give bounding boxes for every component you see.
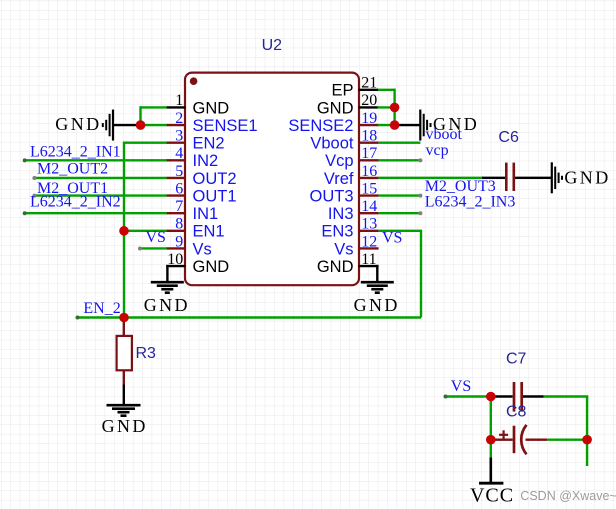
svg-text:14: 14 <box>361 198 377 215</box>
svg-text:OUT1: OUT1 <box>193 187 237 205</box>
capacitor C7 <box>491 382 544 412</box>
ground below R3 <box>102 405 148 436</box>
wire net VS (pin9) <box>138 246 167 250</box>
junction EN1 node <box>119 226 129 236</box>
U2 pin 19 (SENSE2) <box>288 110 378 135</box>
junction C7 left node <box>486 392 496 402</box>
svg-text:GND: GND <box>55 114 101 134</box>
C6 reference designator <box>498 129 519 146</box>
svg-text:C6: C6 <box>498 129 519 146</box>
U2 pin 12 (Vs) <box>334 233 378 258</box>
svg-text:U2: U2 <box>262 37 283 54</box>
junction C8 left node <box>486 435 496 445</box>
svg-text:OUT3: OUT3 <box>309 187 353 205</box>
svg-text:11: 11 <box>361 251 376 268</box>
net label vboot <box>426 126 463 143</box>
wire net L6234_2_IN1 (pin4) <box>23 158 167 162</box>
U2 pin 1 (GND) <box>166 92 229 117</box>
svg-text:R3: R3 <box>136 345 157 362</box>
U2 pin 8 (EN1) <box>166 216 224 241</box>
svg-text:GND: GND <box>564 168 610 188</box>
svg-text:CSDN @Xwave~: CSDN @Xwave~ <box>520 489 616 503</box>
wire net EN_2 <box>76 316 422 320</box>
svg-text:GND: GND <box>144 295 190 315</box>
svg-text:18: 18 <box>361 127 377 144</box>
svg-text:C8: C8 <box>506 403 527 420</box>
U2 pin 6 (OUT1) <box>166 180 236 205</box>
svg-text:VCC: VCC <box>470 485 514 507</box>
U2 pin 20 (GND) <box>317 92 379 117</box>
junction pin19 node <box>390 120 400 130</box>
R3 reference designator <box>136 345 157 362</box>
resistor R3 <box>117 318 132 385</box>
svg-text:1: 1 <box>175 92 183 109</box>
svg-text:10: 10 <box>167 251 183 268</box>
wire net L6234_2_IN3 (pin14) <box>379 211 423 215</box>
U2 pin 21 (EP) <box>331 75 378 100</box>
svg-text:19: 19 <box>361 110 377 127</box>
U2 pin 18 (Vboot) <box>310 127 378 152</box>
svg-text:SENSE1: SENSE1 <box>193 117 258 135</box>
svg-text:M2_OUT2: M2_OUT2 <box>37 160 108 177</box>
svg-text:L6234_2_IN3: L6234_2_IN3 <box>425 194 516 211</box>
svg-text:13: 13 <box>361 216 377 233</box>
wire net M2_OUT2 (pin5) <box>32 176 166 180</box>
wire R3 to ground <box>123 385 125 406</box>
svg-text:IN1: IN1 <box>193 205 219 223</box>
svg-text:8: 8 <box>175 216 183 233</box>
svg-text:EN1: EN1 <box>193 223 225 241</box>
net label L6234_2_IN3 <box>425 194 516 211</box>
wire C7 to right vertical <box>544 395 589 397</box>
svg-text:16: 16 <box>361 163 377 180</box>
wire pin8 EN1 to vertical <box>124 230 167 232</box>
U2 pin 3 (EN2) <box>166 127 224 152</box>
power ground GND (right of U2) <box>395 110 480 141</box>
junction left GND node <box>136 120 146 130</box>
svg-text:GND: GND <box>354 295 400 315</box>
U2 pin 9 (Vs) <box>166 233 211 258</box>
ground below pin11 <box>354 282 400 315</box>
svg-text:vboot: vboot <box>426 126 463 143</box>
wire net L6234_2_IN2 (pin7) <box>23 211 167 215</box>
svg-text:7: 7 <box>175 198 183 215</box>
net label M2_OUT2 <box>37 160 108 177</box>
net label vcp <box>426 142 449 159</box>
net label VS (C7) <box>451 378 471 395</box>
svg-text:OUT2: OUT2 <box>193 170 237 188</box>
svg-text:VS: VS <box>146 229 166 246</box>
wire pin1 to GND junction <box>141 106 167 125</box>
wire pin3 EN2 to vertical <box>124 141 167 143</box>
svg-text:12: 12 <box>361 233 377 250</box>
svg-text:5: 5 <box>175 163 183 180</box>
wire pin20 to vertical <box>378 106 395 108</box>
power ground GND (right of C6) <box>552 162 611 193</box>
U2 pin 5 (OUT2) <box>166 163 236 188</box>
U2 pin 2 (SENSE1) <box>166 110 257 135</box>
svg-text:GND: GND <box>317 99 354 117</box>
power ground GND (left of U2) <box>55 110 141 141</box>
net label L6234_2_IN1 <box>30 144 121 161</box>
ground below pin10 <box>144 282 190 315</box>
svg-text:EP: EP <box>331 82 353 100</box>
U2 pin 17 (Vcp) <box>325 145 379 170</box>
svg-text:21: 21 <box>361 75 377 92</box>
svg-text:EN_2: EN_2 <box>83 300 120 317</box>
svg-text:IN3: IN3 <box>328 205 354 223</box>
svg-text:Vcp: Vcp <box>325 152 353 170</box>
U2 pin 11 (GND) <box>317 251 379 276</box>
U2 pin 7 (IN1) <box>166 198 218 223</box>
svg-text:Vref: Vref <box>324 170 354 188</box>
net label M2_OUT1 <box>37 180 108 197</box>
wire net VS (to C7) <box>444 395 491 399</box>
wire pin16 Vref to C6 <box>379 177 483 179</box>
wire net M2_OUT3 (pin15) <box>379 194 423 198</box>
svg-text:SENSE2: SENSE2 <box>288 117 353 135</box>
power VCC <box>470 457 514 506</box>
svg-text:17: 17 <box>361 145 377 162</box>
wire pin19 to vertical <box>378 124 395 126</box>
svg-text:EN3: EN3 <box>321 223 353 241</box>
junction pin20 node <box>390 103 400 113</box>
svg-text:9: 9 <box>175 233 183 250</box>
wire net M2_OUT1 (pin6) <box>32 194 166 198</box>
svg-text:15: 15 <box>361 180 377 197</box>
U2 reference designator <box>262 37 283 54</box>
svg-text:vcp: vcp <box>426 142 449 159</box>
U2 pin 15 (OUT3) <box>309 180 378 205</box>
svg-text:C7: C7 <box>506 350 527 367</box>
capacitor C8 (polarized) <box>492 425 547 454</box>
net label VS (pin9) <box>146 229 166 246</box>
junction EN_2 node <box>119 313 129 323</box>
IC U2 body <box>185 73 359 286</box>
svg-text:GND: GND <box>102 416 148 436</box>
net label VS (pin12) <box>382 229 402 246</box>
svg-text:GND: GND <box>193 258 230 276</box>
svg-text:4: 4 <box>175 145 183 162</box>
svg-text:M2_OUT3: M2_OUT3 <box>425 178 496 195</box>
svg-text:VS: VS <box>382 229 402 246</box>
svg-text:L6234_2_IN1: L6234_2_IN1 <box>30 144 121 161</box>
svg-text:Vboot: Vboot <box>310 135 354 153</box>
svg-text:20: 20 <box>361 92 377 109</box>
junction right C8 node <box>582 435 592 445</box>
C7 reference designator <box>506 350 527 367</box>
svg-text:VS: VS <box>451 378 471 395</box>
svg-text:EN2: EN2 <box>193 135 225 153</box>
wire pin13 EN3 to corner <box>379 230 421 318</box>
wire pin2 to GND junction <box>141 124 167 126</box>
U2 pin 16 (Vref) <box>324 163 379 188</box>
wire net vboot (pin18) <box>379 141 421 143</box>
U2 pin 13 (EN3) <box>321 216 378 241</box>
U2 pin 10 (GND) <box>166 251 229 276</box>
svg-text:Vs: Vs <box>334 240 353 258</box>
U2 pin 4 (IN2) <box>166 145 218 170</box>
svg-text:2: 2 <box>175 110 183 127</box>
svg-text:L6234_2_IN2: L6234_2_IN2 <box>30 194 121 211</box>
C8 reference designator <box>506 403 527 420</box>
net label EN_2 <box>83 300 120 317</box>
svg-text:6: 6 <box>175 180 183 197</box>
wire left vertical VS <box>490 395 492 457</box>
wire net vcp (pin17) <box>379 158 423 162</box>
wire vertical EN net <box>123 141 125 317</box>
svg-text:GND: GND <box>193 99 230 117</box>
capacitor C6 <box>482 163 552 191</box>
net label L6234_2_IN2 <box>30 194 121 211</box>
net label M2_OUT3 <box>425 178 496 195</box>
wire pin11 to ground <box>376 265 378 282</box>
svg-text:Vs: Vs <box>193 240 212 258</box>
wire pin21 EP to vertical <box>378 89 395 125</box>
wire pin10 to ground <box>166 265 168 282</box>
svg-text:3: 3 <box>175 127 183 144</box>
svg-text:IN2: IN2 <box>193 152 219 170</box>
U2 pin 14 (IN3) <box>328 198 379 223</box>
svg-text:GND: GND <box>317 258 354 276</box>
wire C8 to right vertical <box>547 439 587 441</box>
wire right vertical <box>586 397 588 467</box>
watermark <box>520 489 616 503</box>
